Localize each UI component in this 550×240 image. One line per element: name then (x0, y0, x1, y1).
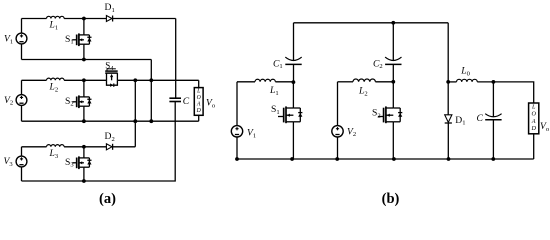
node: row2/row3 link junction (fig a) (133, 78, 137, 82)
svg-text:L2: L2 (358, 86, 368, 98)
svg-text:D2: D2 (105, 131, 115, 143)
svg-text:C1: C1 (273, 58, 283, 70)
svg-text:V1: V1 (4, 34, 13, 46)
node: row1 return junction (fig a) (149, 78, 153, 82)
wire: to load top (fig b) (493, 82, 533, 103)
svg-text:L1: L1 (49, 20, 59, 32)
svg-text:D: D (196, 108, 202, 114)
inductor L2 (fig b) (338, 79, 394, 82)
svg-text:C: C (477, 113, 484, 124)
inductor L0 (fig b) (448, 79, 493, 82)
node: S1 source on rail (fig a) (82, 58, 86, 62)
inductor L1 (fig a) (22, 16, 107, 18)
wire: top bus right side down to L0 node (fig b) (447, 23, 449, 115)
wire: row1 bottom rail (fig a) (22, 59, 152, 61)
svg-text:D1: D1 (105, 2, 115, 14)
wire: vertical link row2 wire to row3 diode output (fig a) (134, 80, 136, 147)
load resistor box (fig b) (529, 103, 539, 159)
node: C2 top junction (fig b) (391, 21, 395, 25)
svg-text:A: A (196, 102, 201, 108)
load resistor box (fig a) (194, 88, 203, 116)
svg-text:V3: V3 (4, 156, 14, 168)
svg-text:S2: S2 (65, 96, 74, 108)
svg-text:S3: S3 (65, 157, 74, 169)
wire: top bus (fig b) (294, 22, 449, 24)
svg-text:A: A (531, 118, 536, 125)
node: L2/C2/S2 junction (fig b) (391, 80, 395, 84)
inductor L1 (fig b) (237, 79, 294, 82)
voltage source V1 (fig a) (16, 19, 27, 60)
inductor L2 (fig a) (22, 78, 107, 80)
svg-text:S1: S1 (271, 104, 280, 116)
node: S2 drain junction (fig a) (82, 78, 86, 82)
MOSFET S3 (fig a) (72, 147, 91, 181)
node: S2 source on rail (fig a) (82, 119, 86, 123)
voltage source V3 (fig a) (16, 147, 27, 181)
MOSFET S4 on row2 wire (fig a) (105, 69, 118, 87)
node: D1 on rail (fig b) (447, 157, 451, 161)
node: output C junction (fig b) (492, 80, 496, 84)
svg-text:V1: V1 (247, 128, 256, 140)
svg-text:C2: C2 (373, 58, 383, 70)
node: L0 left junction (fig b) (446, 80, 450, 84)
node: S1 source on rail (fig b) (290, 157, 294, 161)
capacitor C1 (fig b) (285, 23, 301, 83)
svg-text:L1: L1 (269, 85, 279, 97)
capacitor C2 (fig b) (385, 23, 401, 82)
voltage source V2 (fig a) (16, 80, 27, 121)
diode D1 (fig a) (106, 16, 175, 22)
node: V1 on rail (fig b) (235, 157, 239, 161)
svg-text:Vo: Vo (540, 121, 550, 133)
svg-text:D1: D1 (455, 115, 465, 127)
wire: row3 bottom rail up to output capacitor (fig a) (22, 102, 176, 182)
node: C on rail (fig b) (491, 157, 495, 161)
svg-text:S2: S2 (372, 108, 381, 120)
MOSFET S2 (fig b) (378, 82, 402, 159)
svg-text:L3: L3 (49, 148, 59, 160)
node: D1 anode junction (fig a) (82, 17, 86, 21)
svg-text:(a): (a) (99, 191, 116, 207)
output capacitor C (fig a) (169, 97, 181, 99)
svg-text:D: D (530, 125, 536, 132)
node: link crossing on row2 rail (fig a) (133, 119, 137, 123)
svg-text:L: L (531, 104, 536, 111)
svg-text:Vo: Vo (206, 98, 216, 110)
wire: bottom rail (fig b) (237, 158, 534, 160)
svg-text:V2: V2 (347, 126, 356, 138)
svg-text:V2: V2 (4, 95, 13, 107)
diode D2 (fig a) (106, 144, 135, 150)
svg-text:C: C (183, 96, 190, 107)
svg-text:L: L (196, 89, 200, 95)
voltage source V1 (fig b) (231, 82, 242, 159)
wire: vertical from row1 rail down to row2 rail (fig a) (150, 60, 152, 122)
wire: row1 top right segment down to output (fig a) (175, 19, 177, 98)
wire: row2 bottom rail (fig a) (22, 115, 199, 121)
output capacitor C (fig b) (485, 82, 501, 159)
MOSFET S1 (fig a) (72, 19, 91, 60)
node: row1 return on row2 rail (fig a) (149, 119, 153, 123)
wire: row2 top wire to load (fig a) (118, 80, 199, 87)
node: S3 source on rail (fig a) (82, 179, 86, 183)
diode D1 (fig b) (445, 115, 452, 159)
svg-text:O: O (531, 111, 536, 118)
svg-text:(b): (b) (382, 191, 400, 207)
inductor L3 (fig a) (22, 145, 107, 147)
voltage source V2 (fig b) (332, 82, 343, 159)
node: L1/C1/S1 junction (fig b) (292, 80, 296, 84)
svg-text:S1: S1 (65, 34, 74, 46)
node: V2 on rail (fig b) (335, 157, 339, 161)
figure (a): three-input boost converter (4, 2, 216, 207)
MOSFET S1 (fig b) (278, 82, 302, 159)
node: S2 source on rail (fig b) (392, 157, 396, 161)
svg-text:L0: L0 (460, 66, 470, 78)
figure (b): two-input converter with coupling capacitors (231, 21, 550, 207)
svg-text:L2: L2 (49, 82, 59, 94)
MOSFET S2 (fig a) (72, 80, 91, 121)
node: D2 anode junction (fig a) (82, 145, 86, 149)
